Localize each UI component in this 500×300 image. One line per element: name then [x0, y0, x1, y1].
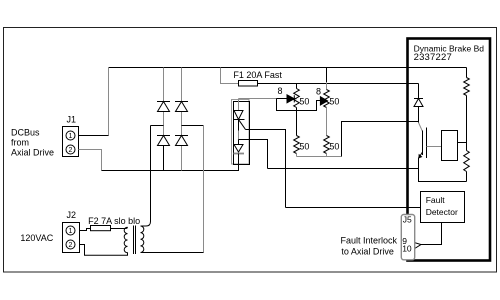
svg-text:50: 50 — [299, 97, 309, 107]
svg-text:10: 10 — [402, 244, 412, 254]
svg-text:to Axial Drive: to Axial Drive — [341, 247, 394, 257]
svg-text:1: 1 — [69, 133, 73, 140]
svg-text:Fault: Fault — [426, 195, 446, 205]
svg-text:J1: J1 — [67, 115, 77, 125]
svg-text:DCBus: DCBus — [11, 128, 40, 138]
svg-text:from: from — [11, 138, 29, 148]
svg-text:F1 20A Fast: F1 20A Fast — [233, 70, 282, 80]
svg-text:Fault Interlock: Fault Interlock — [341, 236, 398, 246]
svg-text:50: 50 — [329, 97, 339, 107]
svg-text:50: 50 — [299, 142, 309, 152]
svg-text:2: 2 — [69, 242, 73, 249]
svg-text:J5: J5 — [403, 215, 412, 225]
svg-text:2: 2 — [69, 147, 73, 154]
svg-text:120VAC: 120VAC — [20, 233, 53, 243]
svg-text:J2: J2 — [67, 210, 77, 220]
svg-text:F2 7A slo blo: F2 7A slo blo — [88, 216, 140, 226]
svg-text:2337227: 2337227 — [414, 52, 452, 63]
svg-text:8: 8 — [316, 87, 321, 97]
svg-text:Detector: Detector — [426, 207, 458, 217]
svg-text:Axial Drive: Axial Drive — [11, 148, 54, 158]
svg-text:8: 8 — [278, 86, 283, 96]
svg-text:50: 50 — [329, 142, 339, 152]
svg-text:1: 1 — [69, 228, 73, 235]
